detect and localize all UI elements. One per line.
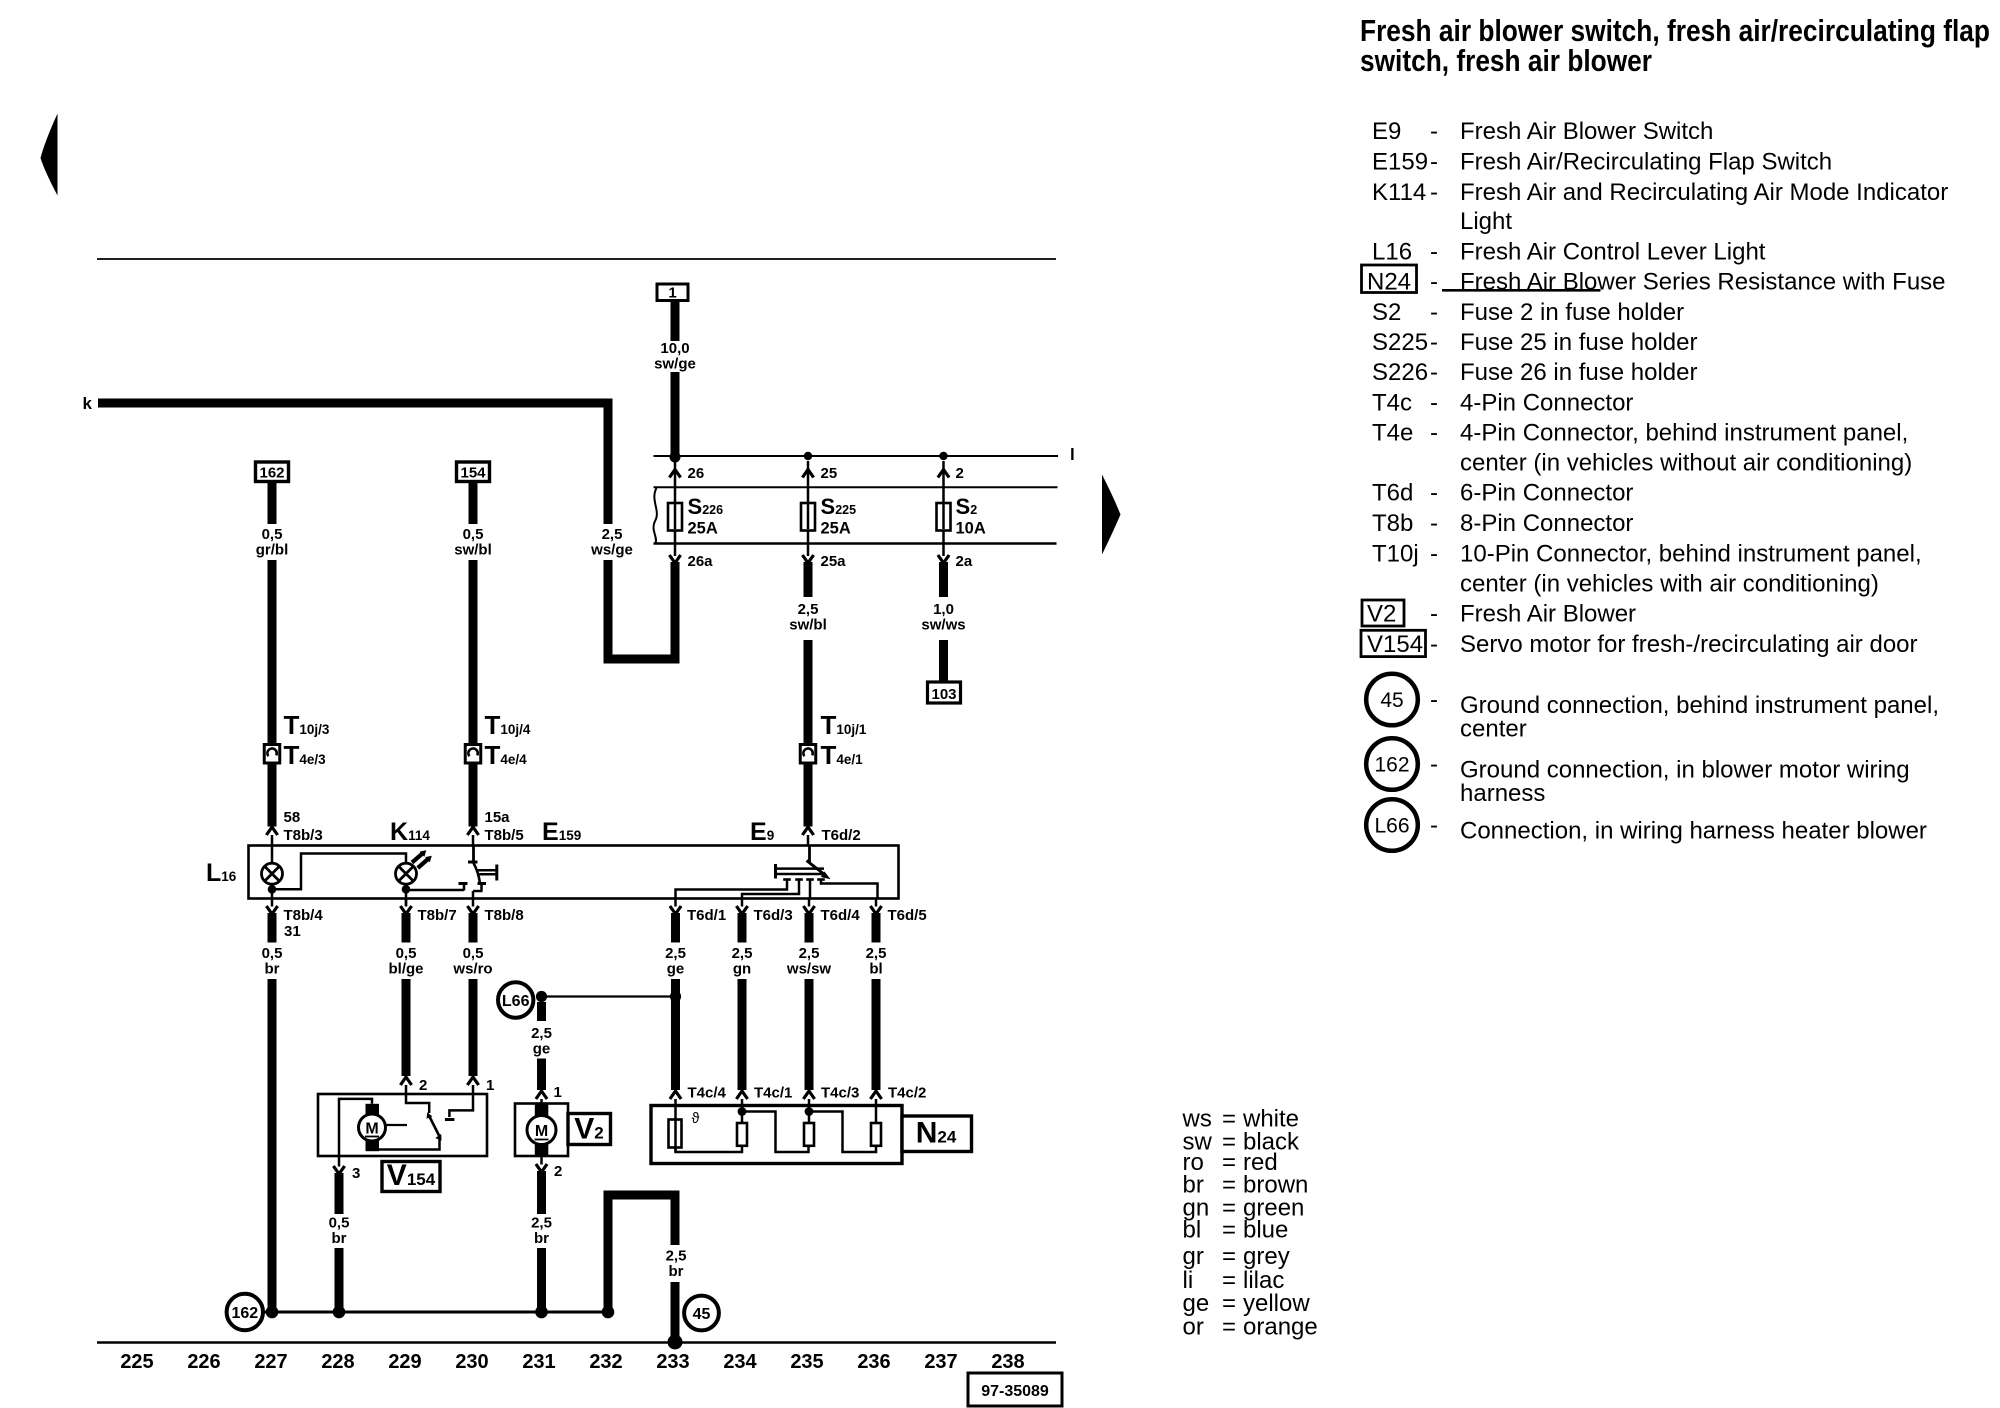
svg-text:-: - [1430,359,1438,386]
svg-text:0,5: 0,5 [396,945,417,962]
svg-text:center (in vehicles without a: center (in vehicles without air conditio… [1460,450,1912,477]
svg-text:-: - [1430,541,1438,568]
svg-text:gn: gn [733,961,751,978]
svg-text:Fuse 2 in fuse holder: Fuse 2 in fuse holder [1460,299,1684,326]
junction ground bus / V154 br wire [333,1306,346,1319]
svg-text:L66: L66 [1374,815,1409,838]
fuse S225 terminal 25a arrow [802,555,813,563]
svg-text:237: 237 [924,1351,957,1373]
pin T4c/4 arrow [670,1091,681,1099]
svg-text:T8b/3: T8b/3 [284,827,323,844]
K114 emission arrows [412,854,423,863]
wire ge to N24 T4c/4 [671,979,680,1090]
svg-text:-: - [1430,390,1438,417]
svg-text:230: 230 [455,1351,488,1373]
svg-text:-: - [1430,179,1438,206]
ground box 154 (top) [457,462,490,482]
fuse S2 element [942,461,945,556]
svg-text:K114: K114 [1372,179,1426,206]
ground connection 162 circle [227,1294,263,1330]
svg-text:ge: ge [667,961,685,978]
legend V2 key box [1362,600,1404,626]
svg-text:k: k [83,394,93,413]
svg-text:bl: bl [869,961,882,978]
ground connection 45 circle [684,1296,719,1331]
svg-text:Ground connection, behind inst: Ground connection, behind instrument pan… [1460,692,1939,719]
svg-text:162: 162 [259,465,284,482]
svg-text:15a: 15a [485,809,511,826]
N24 internal link 1 [676,1146,743,1152]
svg-text:25a: 25a [821,553,847,570]
connector box 103 [928,682,961,703]
wire 0,5 gr/bl upper segment [268,481,277,524]
svg-text:M: M [365,1121,378,1138]
V154 motor M [366,1104,380,1115]
svg-text:Fresh Air and Recirculating Ai: Fresh Air and Recirculating Air Mode Ind… [1460,179,1948,206]
wire 0,5 br to ground bus [335,1248,344,1313]
servo motor V154 box [318,1094,487,1156]
svg-text:2a: 2a [956,553,973,570]
switch E159 fixed contact bars [478,869,496,872]
svg-text:grey: grey [1243,1243,1290,1270]
fuse holder strip bottom edge [654,542,1057,545]
V2 motor M [535,1104,549,1116]
pin T4c/2 arrow [870,1091,881,1099]
svg-text:T6d: T6d [1372,480,1413,507]
svg-text:231: 231 [522,1351,555,1373]
svg-text:0,5: 0,5 [262,945,283,962]
svg-text:10,0: 10,0 [660,340,689,357]
svg-text:1: 1 [486,1077,494,1094]
junction at rail l / wire 1 [670,452,681,463]
switch E9 position contacts [783,878,791,881]
pin T4c/3 arrow [803,1091,814,1099]
svg-text:6-Pin Connector: 6-Pin Connector [1460,480,1633,507]
svg-text:sw/bl: sw/bl [789,617,827,634]
N24 internal link 2 [742,1112,809,1153]
svg-text:45: 45 [693,1306,711,1323]
switch assembly box E9/E159 [249,846,899,899]
svg-text:or: or [1183,1313,1204,1340]
V154 pin 2 arrow [400,1077,411,1085]
svg-text:T6d/2: T6d/2 [822,827,861,844]
svg-text:orange: orange [1243,1313,1318,1340]
legend V154 key box [1361,630,1426,656]
svg-text:-: - [1430,118,1438,145]
junction ground bus / elbow [602,1306,615,1319]
pin T8b/7 arrow [405,899,408,907]
svg-text:2,5: 2,5 [798,601,819,618]
svg-text:-: - [1430,420,1438,447]
lamp L16 [271,846,274,864]
svg-text:br: br [534,1230,549,1247]
svg-text:3: 3 [352,1165,360,1182]
legend N24 strike line [1442,289,1601,292]
svg-text:T6d/1: T6d/1 [687,907,726,924]
svg-text:0,5: 0,5 [329,1215,350,1232]
svg-text:Fuse 26 in fuse holder: Fuse 26 in fuse holder [1460,359,1697,386]
wire 10,0 sw/ge upper segment [671,301,680,342]
svg-text:233: 233 [656,1351,689,1373]
pin T6d/4 arrow [808,899,811,907]
wire 2,5 ws/ge vertical upper segment [604,399,613,525]
svg-text:2,5: 2,5 [866,945,887,962]
svg-text:-: - [1430,687,1438,714]
svg-text:T4c: T4c [1372,390,1412,417]
svg-text:45: 45 [1380,689,1403,712]
wire ws/sw to N24 T4c/3 [805,979,814,1090]
pin T4c/1 arrow [736,1091,747,1099]
svg-text:1: 1 [668,285,676,302]
pin T6d/2 arrow [802,827,813,835]
svg-text:S2: S2 [1372,299,1401,326]
wire 2,5 br from V2 pin 2 [537,1171,546,1214]
svg-text:Connection, in wiring harness: Connection, in wiring harness heater blo… [1460,818,1927,845]
wire 2,5 sw/bl lower segment [804,640,813,745]
svg-text:26: 26 [688,465,705,482]
left page-turn arrow [41,114,58,196]
ground box 162 (top) [256,462,289,482]
wire br to ground bus [268,979,277,1313]
svg-text:=: = [1222,1313,1236,1340]
svg-text:-: - [1430,812,1438,839]
svg-text:4-Pin Connector: 4-Pin Connector [1460,390,1633,417]
wire 1,0 sw/ws upper segment [939,562,948,597]
N24 junction T4c/1 [738,1107,747,1116]
pin T6d/3 arrow [741,899,744,907]
wire 2,5 ws/ge vertical lower segment [604,560,613,664]
svg-text:V154: V154 [1367,631,1423,658]
connector T4e/3 symbol [264,745,280,764]
svg-text:2: 2 [956,465,964,482]
wire 2,5 ge segment [671,913,680,943]
svg-text:T8b/8: T8b/8 [485,907,524,924]
svg-text:ws/ge: ws/ge [590,542,633,559]
V2 pin 2 arrow [540,1156,543,1165]
wire bl to N24 T4c/2 [872,979,881,1090]
link wire L66 to fresh-air blower feed [547,995,676,997]
svg-text:-: - [1430,269,1438,296]
junction on wire ge [670,991,681,1002]
E9 wire to T6d/5 [821,880,878,899]
pin T8b/3 arrow [266,827,277,835]
wire 0,5 ws/ro segment [469,913,478,943]
wire 0,5 sw/bl middle segment [469,560,478,745]
N24 label box [902,1116,972,1152]
svg-text:=: = [1222,1217,1236,1244]
svg-text:-: - [1430,480,1438,507]
svg-text:T4e: T4e [1372,420,1413,447]
svg-text:1,0: 1,0 [933,601,954,618]
connector T4e/1 symbol [800,745,816,764]
N24 resistor 2 element [808,1106,811,1124]
svg-text:2,5: 2,5 [602,526,623,543]
fuse S225 terminal 25 arrow [802,470,813,478]
svg-text:sw/bl: sw/bl [454,542,492,559]
svg-text:T6d/5: T6d/5 [888,907,927,924]
svg-text:25A: 25A [688,520,718,538]
svg-text:M: M [535,1123,548,1140]
switch E159 moving contact [472,846,475,861]
svg-text:58: 58 [284,809,301,826]
pin T8b/8 arrow [472,899,475,907]
svg-text:2,5: 2,5 [732,945,753,962]
E9 wire to T6d/3 [742,880,799,899]
svg-text:1: 1 [554,1084,562,1101]
svg-text:Fresh Air Blower Switch: Fresh Air Blower Switch [1460,118,1713,145]
V154 pin 3 arrow [338,1156,341,1167]
V154 wiper line [386,1124,408,1126]
svg-text:Fuse 25 in fuse holder: Fuse 25 in fuse holder [1460,329,1697,356]
connection L66 circle [498,982,533,1017]
switch E9 moving contact [808,846,811,863]
svg-text:232: 232 [589,1351,622,1373]
svg-text:97-35089: 97-35089 [981,1383,1049,1400]
switch E9 fixed contact [774,864,777,879]
junction ground bus / V2 br wire [535,1306,548,1319]
fuse S2 terminal 2a arrow [938,555,949,563]
V154 pin 1 arrow [467,1077,478,1085]
connector T4e/4 symbol [465,745,481,764]
ground bus wire [263,1311,613,1314]
svg-text:0,5: 0,5 [463,526,484,543]
junction at rail l / fuse S2 [939,452,947,460]
svg-text:229: 229 [388,1351,421,1373]
wire 2,5 br to ground bus [537,1248,546,1313]
svg-text:ge: ge [533,1041,551,1058]
wire sw/bl below connector [804,763,813,827]
wire 2,5 bl segment [872,913,881,943]
svg-text:V2: V2 [1367,601,1396,628]
svg-text:harness: harness [1460,780,1545,807]
svg-text:103: 103 [931,686,956,703]
fuse S225 element [807,461,810,556]
svg-text:-: - [1430,751,1438,778]
wire below connector T4e/4 [469,763,478,827]
svg-text:sw/ge: sw/ge [654,356,696,373]
svg-text:2,5: 2,5 [665,945,686,962]
svg-text:154: 154 [460,465,486,482]
V154 label box [382,1162,440,1192]
wire elbow horizontal to fuse 26a [604,655,680,664]
svg-text:225: 225 [120,1351,153,1373]
diagram number box 97-35089 [968,1373,1062,1406]
svg-text:l: l [1070,445,1075,464]
wire 2,5 gn segment [738,913,747,943]
svg-text:-: - [1430,299,1438,326]
wire fuse 26a vertical to elbow [671,562,680,664]
internal wire L16 to K114 [272,854,406,890]
svg-text:T8b/5: T8b/5 [485,827,524,844]
wire 2,5 sw/bl upper segment [804,562,813,597]
series resistance N24 box [651,1106,902,1164]
fuse S226 terminal 26 arrow [669,470,680,478]
E9 wire to T6d/1 [676,880,788,899]
svg-text:bl: bl [1183,1217,1202,1244]
legend ground circle 45 [1366,674,1418,726]
svg-text:Fresh Air Blower: Fresh Air Blower [1460,601,1636,628]
wire 1,0 sw/ws lower segment [939,640,948,684]
wire bl/ge to V154 pin 2 [402,979,411,1076]
N24 thermal fuse element [674,1106,677,1153]
junction ground bus / br wire [266,1306,279,1319]
top border line [97,258,1056,260]
svg-text:gr: gr [1183,1243,1204,1270]
svg-text:8-Pin Connector: 8-Pin Connector [1460,510,1633,537]
svg-text:E159: E159 [1372,149,1428,176]
fuse S2 terminal 2 arrow [938,470,949,478]
V2 label box [568,1114,611,1145]
svg-text:gr/bl: gr/bl [256,542,289,559]
svg-text:center: center [1460,716,1527,743]
rail l horizontal line [654,455,1059,457]
wire 0,5 br from V154 pin 3 [335,1173,344,1214]
N24 resistor 3 element [875,1106,878,1124]
svg-text:31: 31 [284,923,301,940]
ground point 45 dot [668,1335,683,1350]
svg-text:Light: Light [1460,208,1512,235]
svg-text:=: = [1222,1243,1236,1270]
svg-text:sw/ws: sw/ws [921,617,965,634]
svg-text:T8b/7: T8b/7 [418,907,457,924]
svg-text:226: 226 [187,1351,220,1373]
svg-text:2,5: 2,5 [531,1025,552,1042]
V154 internal switch from pin 2 [406,1094,429,1113]
svg-text:T4c/4: T4c/4 [688,1085,727,1102]
wire 2,5 ge upper segment (V2 feed) [537,1002,546,1021]
svg-text:235: 235 [790,1351,823,1373]
V154 internal wire to pin 3 [339,1099,372,1156]
right page-turn arrow [1102,475,1121,555]
svg-text:2,5: 2,5 [799,945,820,962]
svg-text:2: 2 [554,1163,562,1180]
svg-text:-: - [1430,601,1438,628]
svg-text:T6d/3: T6d/3 [754,907,793,924]
svg-text:br: br [669,1263,684,1280]
svg-text:Fresh Air Control Lever Light: Fresh Air Control Lever Light [1460,239,1766,266]
N24 junction T4c/3 [805,1107,814,1116]
svg-text:S225: S225 [1372,329,1428,356]
svg-text:162: 162 [231,1305,258,1322]
svg-text:T4c/2: T4c/2 [888,1085,926,1102]
svg-text:10A: 10A [956,520,986,538]
V2 pin 1 arrow [536,1091,547,1099]
svg-text:blue: blue [1243,1217,1288,1244]
E9 wire to T6d/4 [809,880,812,899]
wire 0,5 sw/bl upper segment [469,481,478,524]
svg-text:26a: 26a [688,553,714,570]
svg-text:2: 2 [419,1077,427,1094]
svg-text:ws/ro: ws/ro [452,961,492,978]
legend ground circle 162 [1366,738,1418,790]
wire 2,5 ws/sw segment [805,913,814,943]
svg-text:234: 234 [723,1351,757,1373]
ground elbow wire [604,1199,613,1314]
wire k horizontal (thick) [98,399,613,408]
junction at rail l / fuse S225 [804,452,812,460]
svg-text:br: br [332,1230,347,1247]
fuse S226 element [674,461,677,556]
N24 resistor 1 element [741,1106,744,1124]
svg-text:0,5: 0,5 [262,526,283,543]
legend ground circle L66 [1366,799,1418,851]
svg-text:0,5: 0,5 [463,945,484,962]
pin T6d/5 arrow [875,899,878,907]
V154 internal contact from pin 1 [449,1094,473,1117]
internal wire K114 to switch contact [406,889,464,892]
fuse holder strip torn left edge [654,488,657,544]
svg-text:E9: E9 [1372,118,1401,145]
svg-text:center (in vehicles with air c: center (in vehicles with air conditionin… [1460,571,1879,598]
fuse S226 terminal 26a arrow [669,555,680,563]
svg-text:T6d/4: T6d/4 [821,907,861,924]
svg-text:-: - [1430,510,1438,537]
svg-text:L66: L66 [502,993,530,1010]
svg-text:S226: S226 [1372,359,1428,386]
svg-text:T4c/3: T4c/3 [821,1085,859,1102]
wire 10,0 sw/ge lower segment [671,372,680,459]
svg-text:228: 228 [321,1351,354,1373]
svg-text:10-Pin Connector, behind instr: 10-Pin Connector, behind instrument pane… [1460,541,1922,568]
svg-text:T10j: T10j [1372,541,1419,568]
pin T8b/5 arrow [467,827,478,835]
svg-text:br: br [265,961,280,978]
svg-text:25A: 25A [821,520,851,538]
svg-text:-: - [1430,239,1438,266]
svg-text:4-Pin Connector, behind instru: 4-Pin Connector, behind instrument panel… [1460,420,1908,447]
wire 0,5 br segment [268,913,277,943]
wire gn to N24 T4c/1 [738,979,747,1090]
wire 0,5 gr/bl middle segment [268,560,277,745]
svg-text:T8b/4: T8b/4 [284,907,324,924]
fresh air blower V2 box [515,1104,568,1157]
svg-text:227: 227 [254,1351,287,1373]
wire 0,5 bl/ge segment [402,913,411,943]
svg-text:2,5: 2,5 [666,1248,687,1265]
N24 internal link 3 [809,1112,876,1153]
svg-text:switch, fresh air blower: switch, fresh air blower [1360,43,1652,78]
fuse holder strip top edge [654,486,1058,488]
svg-text:2,5: 2,5 [531,1215,552,1232]
svg-text:236: 236 [857,1351,890,1373]
svg-text:Fresh Air/Recirculating Flap S: Fresh Air/Recirculating Flap Switch [1460,149,1832,176]
svg-text:L16: L16 [1372,239,1412,266]
junction L66 / wire ge [536,991,547,1002]
svg-text:Servo motor for fresh-/recircu: Servo motor for fresh-/recirculating air… [1460,631,1918,658]
bottom border line [97,1341,1056,1344]
svg-text:ws/sw: ws/sw [786,961,832,978]
svg-text:T8b: T8b [1372,510,1413,537]
svg-text:-: - [1430,631,1438,658]
indicator lamp K114 [396,863,417,884]
wire below connector T4e/3 [268,763,277,827]
wire 2,5 br to ground 45 [671,1282,680,1339]
svg-text:bl/ge: bl/ge [388,961,423,978]
wire ws/ro to V154 pin 1 [469,979,478,1076]
terminal 30 box 1 [657,284,688,301]
wire 2,5 ge lower segment (V2 feed) [537,1059,546,1091]
svg-text:-: - [1430,149,1438,176]
pin T8b/4 arrow [271,899,274,907]
svg-text:238: 238 [991,1351,1024,1373]
pin T6d/1 arrow [674,899,677,907]
svg-text:ϑ: ϑ [692,1111,700,1127]
svg-text:162: 162 [1374,754,1409,777]
svg-text:T4c/1: T4c/1 [754,1085,792,1102]
svg-text:25: 25 [821,465,838,482]
svg-text:-: - [1430,329,1438,356]
legend N24 key box [1362,265,1417,293]
